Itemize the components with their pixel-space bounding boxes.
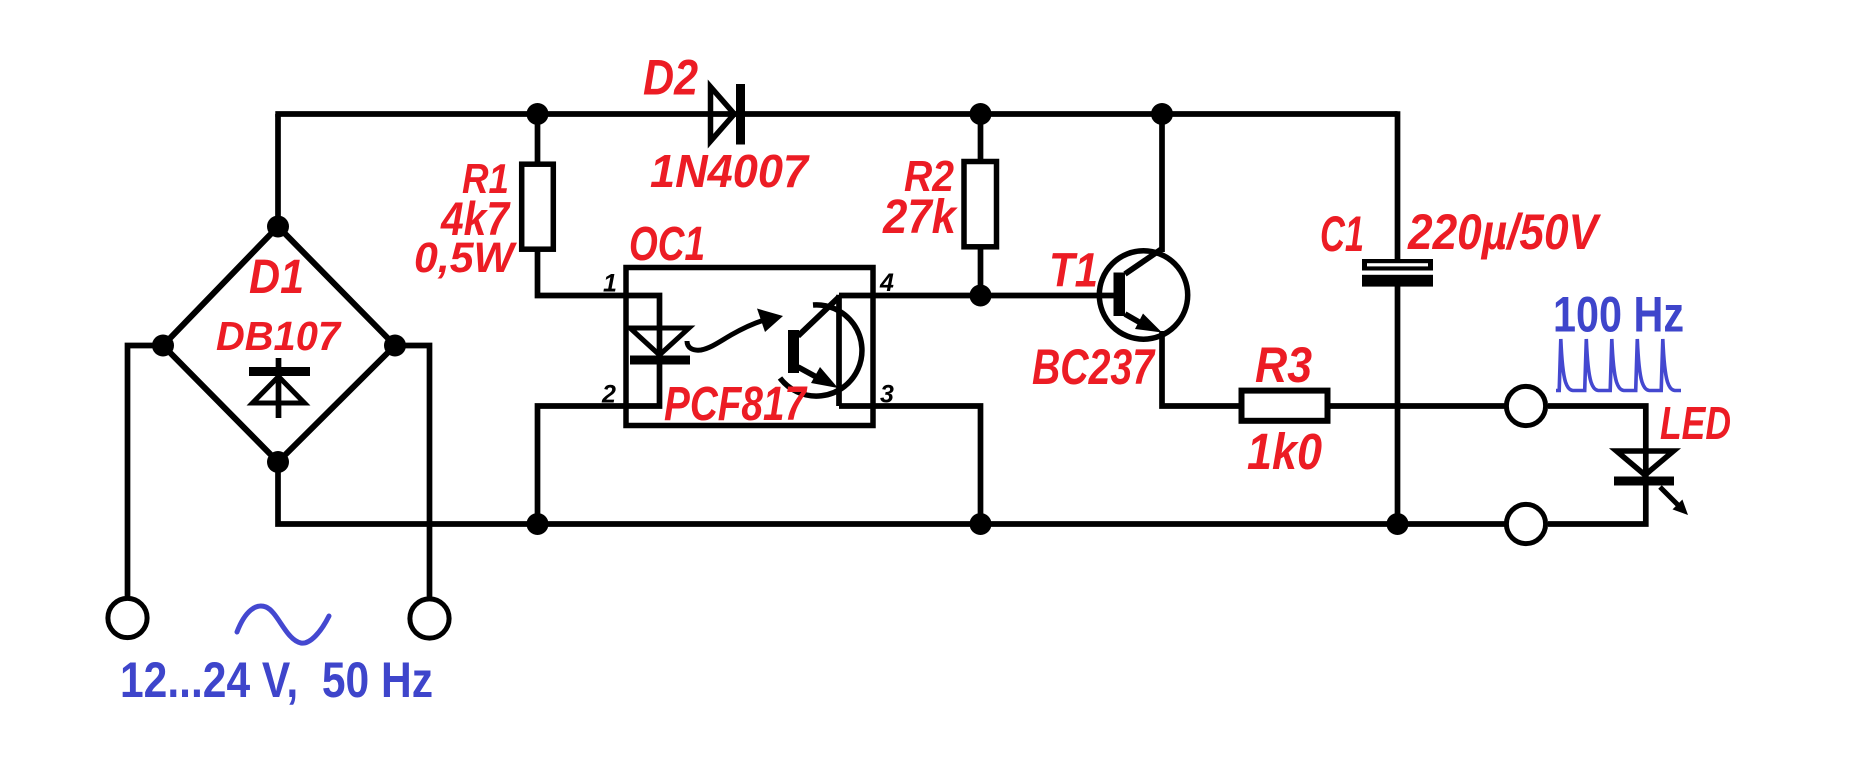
AC sine symbol <box>237 606 329 643</box>
wire: OC1 pin 2 to ground rail <box>538 406 627 524</box>
wire: R2 bottom lead <box>978 245 984 296</box>
svg-text:D2: D2 <box>643 50 698 106</box>
OC1 phototransistor base plate <box>788 330 799 373</box>
wire: T1 collector to top rail <box>1159 114 1165 252</box>
svg-text:PCF817: PCF817 <box>664 378 808 431</box>
svg-text:T1: T1 <box>1049 245 1098 298</box>
terminal: output minus <box>1506 504 1545 543</box>
diode D2 triangle <box>711 87 735 141</box>
wire: AC input left <box>128 346 164 598</box>
wire: R2 top lead <box>978 114 984 164</box>
wire: T1 emitter down to R3 <box>1162 331 1242 406</box>
bridge rectifier D1 diamond <box>163 227 395 463</box>
svg-text:2: 2 <box>601 381 616 409</box>
terminal: AC input left <box>108 598 147 637</box>
svg-text:C1: C1 <box>1320 206 1364 262</box>
resistor R2 <box>964 162 997 247</box>
LED light arrowhead <box>1673 500 1689 516</box>
svg-text:3: 3 <box>880 381 894 409</box>
svg-text:220µ/50V: 220µ/50V <box>1407 204 1601 260</box>
junction: bridge AC right vertex <box>384 335 406 357</box>
OC1 inner collector rail <box>836 295 842 406</box>
svg-text:LED: LED <box>1660 397 1731 449</box>
resistor R3 <box>1242 391 1328 421</box>
svg-text:BC237: BC237 <box>1032 339 1156 395</box>
junction: top rail / R2 <box>970 103 992 125</box>
OC1 phototransistor emitter arrowhead <box>811 367 838 388</box>
OC1 phototransistor collector diagonal <box>798 297 839 336</box>
T1 collector diagonal <box>1125 248 1163 274</box>
terminal: AC input right <box>410 599 449 638</box>
D1 internal diode triangle <box>253 377 305 404</box>
svg-text:OC1: OC1 <box>629 218 705 271</box>
svg-text:1k0: 1k0 <box>1247 423 1322 480</box>
wire: ground rail <box>278 459 1505 524</box>
OC1 pin 4 inner lead <box>839 293 873 299</box>
wire: plus terminal to LED anode <box>1548 406 1646 479</box>
junction: ground rail / C1 <box>1387 513 1409 535</box>
D1 internal diode cathode bar <box>249 367 310 376</box>
wire: OC1 pin 4 to T1 base <box>873 293 1114 299</box>
svg-text:R3: R3 <box>1255 337 1312 393</box>
wire: C1 bottom lead to ground rail <box>1395 285 1401 524</box>
junction: bridge AC left vertex <box>152 335 174 357</box>
D1 internal diode axis <box>276 358 282 418</box>
svg-text:12...24 V, 50 Hz: 12...24 V, 50 Hz <box>120 652 433 708</box>
svg-text:100 Hz: 100 Hz <box>1553 287 1684 343</box>
OC1 light coupling arrowhead <box>757 309 783 333</box>
LED triangle <box>1617 451 1674 475</box>
svg-text:D1: D1 <box>249 251 304 304</box>
junction: bridge minus vertex <box>267 451 289 473</box>
OC1 phototransistor envelope arc <box>780 305 862 396</box>
wire: R1 top lead <box>535 114 541 164</box>
junction: top rail / T1 collector <box>1151 103 1173 125</box>
wire: AC input right <box>395 346 430 598</box>
LED light arrow shaft <box>1660 487 1678 505</box>
terminal: output plus <box>1506 386 1545 425</box>
LED cathode bar <box>1614 477 1674 486</box>
svg-text:1: 1 <box>603 270 617 298</box>
optocoupler OC1 box <box>626 268 873 426</box>
svg-text:1N4007: 1N4007 <box>650 145 810 197</box>
capacitor C1 bottom plate <box>1362 275 1433 287</box>
junction: ground rail / OC1 pin 2 <box>527 513 549 535</box>
capacitor C1 top plate <box>1362 259 1433 271</box>
OC1 LED cathode lead <box>626 364 660 406</box>
OC1 pin 3 inner lead <box>839 403 873 409</box>
OC1 LED triangle <box>630 328 689 355</box>
svg-text:0,5W: 0,5W <box>414 234 517 282</box>
junction: bridge plus vertex <box>267 216 289 238</box>
svg-text:4: 4 <box>879 269 894 297</box>
wire: top rail down to C1 <box>1395 111 1401 261</box>
wire: R1 bottom lead to OC1 pin 1 <box>538 250 627 296</box>
transistor T1 circle <box>1099 251 1187 339</box>
junction: top rail / R1 <box>527 103 549 125</box>
svg-text:DB107: DB107 <box>216 313 342 359</box>
wire: R3 to plus output terminal <box>1330 403 1505 409</box>
T1 emitter arrowhead <box>1135 314 1162 333</box>
diode D2 cathode bar <box>736 84 745 145</box>
T1 emitter diagonal <box>1125 314 1146 326</box>
wire: bridge plus vertex to top rail <box>275 114 281 229</box>
wire: OC1 pin 3 to ground rail <box>873 406 981 524</box>
wire: top rail <box>275 111 1397 117</box>
resistor R1 <box>522 164 554 249</box>
OC1 phototransistor emitter diagonal <box>798 367 820 379</box>
wire: LED cathode to minus terminal <box>1548 485 1646 524</box>
OC1 light coupling arrow <box>687 320 764 350</box>
junction: R2 bottom / T1 base node <box>970 285 992 307</box>
OC1 LED anode lead <box>626 296 660 357</box>
T1 base plate <box>1114 273 1126 317</box>
svg-text:27k: 27k <box>882 191 958 244</box>
OC1 LED cathode bar <box>630 356 690 365</box>
output pulse waveform <box>1556 339 1681 391</box>
junction: ground rail / OC1 pin 3 <box>970 513 992 535</box>
